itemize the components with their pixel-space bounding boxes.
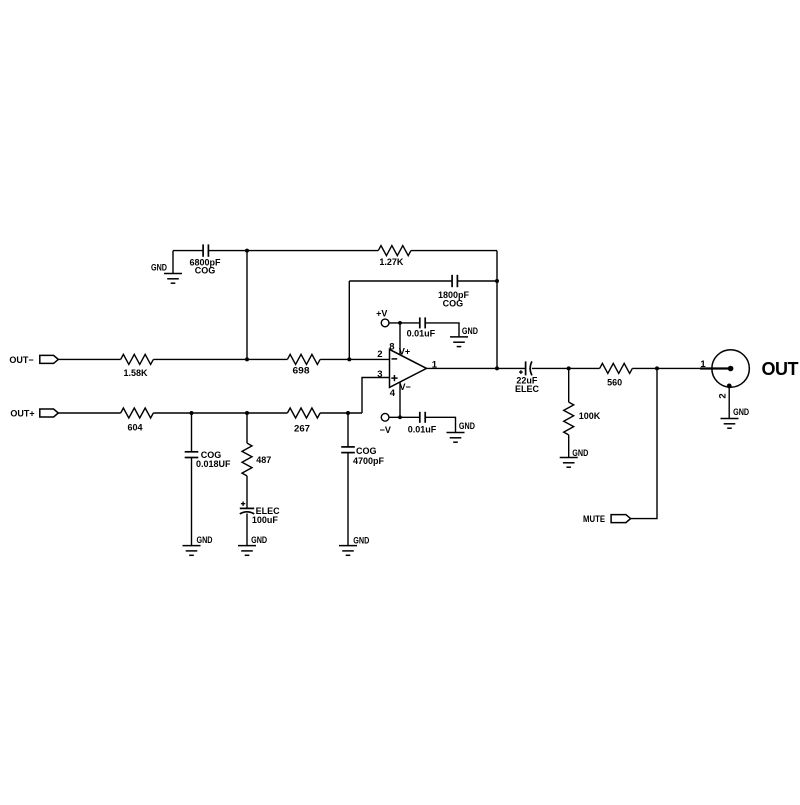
junction dot OUT+ line x247 [245, 411, 249, 415]
wire OUT- line segment 1 [58, 358, 120, 360]
op-amp minus mark pin2 [392, 358, 398, 360]
wire pin 4 drop [399, 382, 401, 417]
wire 1800pF line [349, 280, 452, 282]
svg-text:+V: +V [376, 309, 387, 319]
capacitor C 0.01uF bottom plates [420, 412, 425, 423]
wire OUT+ line segment 1 [58, 412, 120, 414]
svg-text:V+: V+ [399, 347, 410, 357]
ground below 100K [560, 458, 578, 468]
junction dot 1800pF feedback [495, 279, 499, 283]
junction dot OUT- line x247 [245, 357, 249, 361]
svg-text:100K: 100K [579, 411, 601, 421]
junction dot output mute [655, 366, 659, 370]
wire 1800pF line right segment [457, 280, 497, 282]
junction dot -V node [398, 415, 402, 419]
wire 100K drop [568, 368, 570, 402]
svg-text:GND: GND [462, 326, 478, 336]
svg-text:OUT−: OUT− [9, 355, 33, 365]
junction dot output 100K [567, 366, 571, 370]
svg-text:487: 487 [256, 455, 271, 465]
wire OUT+ line segment 3 [320, 412, 362, 414]
junction dot OUT- line x349 [347, 357, 351, 361]
wire 6800pF ground drop [172, 251, 174, 274]
svg-text:ELEC: ELEC [515, 384, 540, 394]
op-amp U1 triangle [390, 349, 427, 387]
resistor 1.27K [378, 246, 411, 256]
svg-text:GND: GND [733, 407, 749, 417]
capacitor C 4700pF COG plates [341, 447, 355, 453]
wire OUT- line segment 3 to op-amp pin 2 [320, 358, 389, 360]
wire top feedback line left segment [173, 250, 203, 252]
wire 100K to ground [568, 435, 570, 458]
svg-text:4: 4 [390, 388, 396, 399]
svg-text:GND: GND [353, 535, 369, 545]
svg-text:267: 267 [294, 424, 310, 434]
ground below 0.018UF [183, 546, 201, 556]
wire mute vertical [631, 368, 657, 518]
wire 487 drop [246, 413, 248, 443]
wire riser to op-amp pin 3 [362, 378, 390, 414]
resistor 267 [287, 408, 320, 418]
wire 487 to 100uF [246, 476, 248, 509]
wire pin 8 riser [399, 323, 401, 356]
svg-text:COG: COG [195, 265, 216, 275]
svg-text:GND: GND [459, 421, 475, 431]
svg-text:0.01uF: 0.01uF [407, 329, 436, 339]
BNC shell pin dot [727, 384, 732, 389]
svg-text:OUT: OUT [762, 359, 799, 379]
wire 0.01uF bottom to ground [425, 417, 455, 432]
svg-text:4700pF: 4700pF [353, 456, 385, 466]
junction dot OUT+ line x191 [190, 411, 194, 415]
connector J OUT+ flag [40, 409, 59, 417]
power -V terminal circle [381, 413, 389, 421]
wire OUT- line segment 2 [153, 358, 287, 360]
capacitor C 0.01uF top plates [420, 317, 425, 328]
wire OUT+ line segment 2 [153, 412, 287, 414]
connector J OUT- flag [40, 355, 59, 363]
ground below 100uF [238, 546, 256, 556]
capacitor C 6800pF COG plates [203, 244, 208, 256]
resistor 560 [600, 363, 633, 373]
svg-text:GND: GND [151, 263, 167, 273]
connector J OUT BNC circle [712, 350, 750, 388]
wire 100uF to ground [246, 514, 248, 546]
wire 1800pF vertical to pin 2 [348, 281, 350, 359]
wire 0.018UF drop [191, 413, 193, 452]
ground top 0.01uF [450, 337, 468, 347]
resistor 100K vertical [564, 402, 574, 435]
BNC center pin dot [728, 366, 734, 372]
svg-text:V−: V− [400, 382, 411, 392]
resistor 698 [287, 354, 320, 364]
svg-text:MUTE: MUTE [583, 514, 605, 524]
ground below 4700pF [339, 546, 357, 556]
capacitor C 0.018UF COG plates [185, 452, 199, 458]
wire 560 to BNC [632, 367, 705, 369]
svg-text:3: 3 [377, 369, 382, 380]
capacitor C 22uF ELEC plates [526, 361, 532, 375]
wire 4700pF to ground [347, 453, 349, 546]
svg-text:COG: COG [443, 298, 464, 308]
svg-text:GND: GND [251, 535, 267, 545]
svg-text:0.018UF: 0.018UF [196, 459, 231, 469]
resistor 1.58K [121, 354, 154, 364]
wire output pin 1 to 22uF [427, 367, 526, 369]
capacitor C 100uF ELEC plates [240, 508, 254, 514]
svg-text:2: 2 [377, 349, 382, 360]
svg-text:698: 698 [293, 365, 310, 375]
junction dot output feedback [495, 366, 499, 370]
svg-text:−V: −V [380, 425, 391, 435]
capacitor C 1800pF COG plates [452, 275, 457, 287]
wire vertical from top line to OUT- line [246, 251, 248, 360]
resistor 604 [121, 408, 154, 418]
svg-text:8: 8 [389, 342, 394, 353]
wire top feedback line mid segment [208, 250, 378, 252]
wire top feedback line right segment [411, 250, 497, 252]
wire feedback right vertical [496, 251, 498, 369]
ground BNC pin 2 [721, 419, 739, 429]
svg-text:1: 1 [432, 359, 438, 370]
resistor 487 vertical [242, 443, 252, 476]
wire BNC pin 2 drop [728, 386, 730, 419]
capacitor 100uF plus mark [241, 502, 245, 506]
svg-text:0.01uF: 0.01uF [408, 424, 437, 434]
ground bottom 0.01uF [447, 433, 465, 443]
svg-text:2: 2 [717, 393, 728, 398]
wire 0.018UF to ground [191, 458, 193, 546]
svg-text:1.58K: 1.58K [123, 368, 148, 378]
junction dot top line / OUT- branch [245, 249, 249, 253]
wire -V to bypass cap [389, 416, 420, 418]
svg-text:604: 604 [127, 423, 142, 433]
wire 22uF to 560 [532, 367, 600, 369]
svg-text:1.27K: 1.27K [379, 257, 404, 267]
junction dot OUT+ line x348 [346, 411, 350, 415]
svg-text:GND: GND [197, 535, 213, 545]
svg-text:560: 560 [607, 378, 622, 388]
wire +V to bypass cap [389, 322, 420, 324]
svg-text:COG: COG [356, 446, 377, 456]
svg-text:GND: GND [572, 448, 588, 458]
svg-text:100uF: 100uF [252, 515, 279, 525]
ground top-left [164, 274, 182, 284]
svg-text:1: 1 [700, 359, 706, 370]
svg-text:OUT+: OUT+ [10, 409, 34, 419]
BNC pin 1 bold lead [700, 367, 731, 369]
power +V terminal circle [381, 319, 389, 327]
capacitor 22uF plus mark [519, 370, 523, 374]
wire 4700pF drop [347, 413, 349, 447]
wire 0.01uF top to ground [425, 323, 459, 337]
connector J MUTE flag [611, 515, 631, 523]
op-amp plus mark pin3 [391, 375, 397, 381]
junction dot +V node [398, 321, 402, 325]
